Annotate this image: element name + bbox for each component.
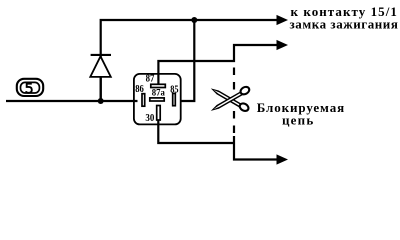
- relay pin 87a blade: [150, 98, 164, 101]
- junction dot top wire: [191, 17, 197, 23]
- relay pin 85 blade: [173, 93, 176, 105]
- junction dot diode/main wire: [98, 98, 104, 104]
- svg-text:85: 85: [170, 84, 178, 95]
- relay pin 30 blade: [157, 106, 161, 121]
- wire branch to second arrow: [158, 45, 278, 84]
- scissors cut symbol: [211, 85, 251, 112]
- svg-text:цепь: цепь: [282, 112, 314, 127]
- arrowhead second: [277, 40, 289, 50]
- relay K1 body: [134, 74, 181, 125]
- wire pin30 down and right: [158, 120, 234, 143]
- svg-text:замка зажигания: замка зажигания: [290, 16, 399, 31]
- arrowhead top: [277, 15, 289, 25]
- wire main horizontal from terminal 5: [6, 100, 138, 102]
- wire solid lower blocked circuit to arrow: [234, 136, 278, 160]
- wire top horizontal to arrow: [101, 20, 278, 101]
- wire dashed blocked circuit: [233, 68, 235, 137]
- arrowhead bottom: [277, 154, 289, 164]
- terminal 5 tag: [17, 79, 43, 96]
- svg-text:87: 87: [146, 74, 155, 85]
- svg-text:30: 30: [145, 113, 154, 124]
- svg-text:86: 86: [135, 84, 144, 95]
- diode VD1: [90, 55, 111, 101]
- relay pin 87 blade: [151, 84, 166, 87]
- svg-text:87a: 87a: [152, 88, 166, 98]
- wire pin85 riser from top junction: [181, 20, 195, 101]
- relay pin 86 blade: [142, 94, 145, 107]
